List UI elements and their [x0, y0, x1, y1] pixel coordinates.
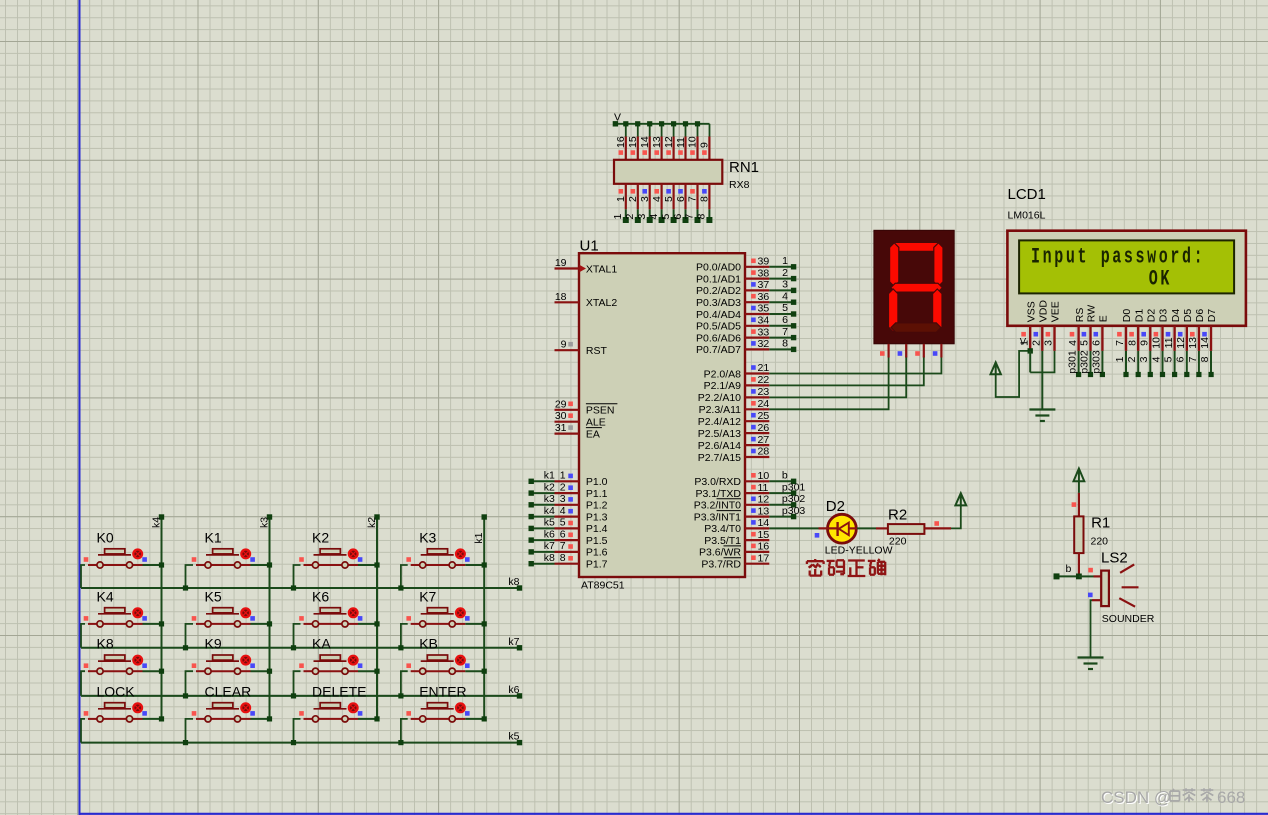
svg-text:SOUNDER: SOUNDER	[1102, 613, 1155, 625]
7seg segment a (top, lit)	[891, 242, 943, 251]
R1 bottom indicator	[1088, 568, 1093, 573]
svg-text:P3.0/RXD: P3.0/RXD	[694, 476, 741, 488]
U1 pin 31 EA	[555, 422, 580, 434]
svg-text:11: 11	[675, 137, 687, 148]
svg-text:2: 2	[627, 196, 639, 202]
wire power to R1	[1078, 481, 1080, 493]
svg-text:1: 1	[615, 196, 627, 202]
wire junction to sounder	[1079, 575, 1094, 577]
svg-text:220: 220	[1091, 536, 1109, 548]
svg-text:P0.0/AD0: P0.0/AD0	[696, 262, 741, 274]
7seg segment e (bottom-left, lit)	[889, 289, 898, 332]
7seg segment f (top-left, lit)	[890, 243, 899, 287]
push button K8	[81, 655, 164, 696]
svg-text:5: 5	[660, 214, 672, 220]
svg-text:668: 668	[1217, 788, 1245, 807]
LCD pin 13 D6	[1187, 309, 1206, 351]
7seg segment c (bottom-right, lit)	[933, 289, 942, 332]
svg-text:P1.7: P1.7	[586, 559, 608, 571]
svg-text:28: 28	[758, 446, 770, 458]
svg-text:2: 2	[560, 481, 566, 493]
push button ENTER	[398, 703, 487, 746]
svg-text:EA: EA	[586, 428, 600, 440]
svg-text:P2.7/A15: P2.7/A15	[698, 452, 741, 464]
text password-correct (Chinese)	[807, 559, 885, 576]
svg-text:XTAL1: XTAL1	[586, 263, 617, 275]
net 5 terminal under LCD D4	[1163, 351, 1178, 377]
U1 pin 16 P3.6/WR	[699, 541, 769, 559]
wire P2.0 to 7-segment pin	[769, 357, 941, 374]
7seg segment g (middle, lit)	[891, 283, 943, 292]
svg-text:E: E	[1098, 315, 1110, 322]
U1 pin 22 P2.1/A9	[704, 374, 770, 392]
svg-text:22: 22	[758, 374, 770, 386]
LCD pin 2 VDD	[1031, 300, 1050, 351]
svg-text:D2: D2	[826, 498, 845, 515]
svg-text:PSEN: PSEN	[586, 405, 615, 417]
svg-text:D7: D7	[1206, 309, 1218, 323]
svg-text:12: 12	[1175, 337, 1187, 349]
svg-text:P3.3/INT1: P3.3/INT1	[694, 511, 741, 523]
net p301 terminal under LCD	[1067, 350, 1082, 377]
sounder LS2 bottom pin wire to ground	[1091, 600, 1102, 657]
R2 logic indicator	[934, 521, 939, 526]
push button DELETE	[291, 703, 380, 746]
svg-text:p301: p301	[1067, 350, 1079, 374]
svg-text:12: 12	[758, 494, 770, 506]
7-segment pin indicators	[880, 351, 937, 356]
svg-text:RST: RST	[586, 345, 608, 357]
svg-text:RW: RW	[1086, 305, 1098, 322]
svg-text:26: 26	[758, 422, 770, 434]
svg-text:6: 6	[675, 196, 687, 202]
svg-text:P3.1/TXD: P3.1/TXD	[695, 488, 741, 500]
U1 pin 33 P0.6/AD6 with net 7 terminal	[696, 326, 796, 345]
LCD pin 10 D3	[1151, 309, 1170, 351]
power arrow (R2)	[955, 493, 966, 505]
svg-text:14: 14	[758, 517, 770, 529]
svg-text:14: 14	[639, 136, 651, 148]
LCD pin 12 D5	[1175, 309, 1194, 351]
wire VEE down-left	[1030, 351, 1054, 373]
svg-text:V: V	[1020, 337, 1027, 348]
svg-text:R2: R2	[888, 506, 907, 523]
svg-text:K4: K4	[97, 588, 114, 604]
svg-text:k5: k5	[508, 731, 519, 743]
U1 pin name ALE	[586, 417, 606, 429]
net 8 terminal under LCD D7	[1199, 351, 1214, 377]
svg-text:P0.3/AD3: P0.3/AD3	[696, 297, 741, 309]
svg-text:1: 1	[612, 214, 624, 220]
svg-text:p302: p302	[1079, 350, 1091, 374]
LCD pin 8 D1	[1126, 309, 1145, 351]
svg-text:P0.2/AD2: P0.2/AD2	[696, 285, 741, 297]
net 2 terminal under LCD D1	[1126, 351, 1141, 377]
svg-text:12: 12	[663, 136, 675, 148]
row wire k6	[81, 684, 522, 699]
svg-text:4: 4	[651, 196, 663, 202]
svg-text:k1: k1	[473, 532, 485, 543]
svg-text:16: 16	[615, 136, 627, 148]
7seg segment b (top-right, lit)	[934, 243, 943, 287]
net p303 wire and terminal	[769, 505, 805, 520]
svg-text:DELETE: DELETE	[312, 683, 366, 699]
CSDN watermark	[1101, 788, 1245, 808]
ground symbol (LS2)	[1078, 658, 1104, 670]
svg-text:CLEAR: CLEAR	[205, 683, 252, 699]
push button K7	[398, 608, 487, 651]
push button K5	[183, 608, 272, 651]
svg-text:4: 4	[560, 505, 566, 517]
U1 pin 21 P2.0/A8	[704, 362, 770, 380]
node b wire and terminal	[1054, 563, 1079, 579]
svg-text:K7: K7	[419, 588, 436, 604]
net p301 wire and terminal	[769, 481, 805, 496]
U1 pin 15 P3.5/T1	[704, 529, 769, 547]
svg-text:D3: D3	[1158, 309, 1170, 323]
svg-text:P3.2/INT0: P3.2/INT0	[694, 500, 741, 512]
svg-text:5: 5	[1079, 340, 1091, 346]
svg-text:5: 5	[560, 517, 566, 529]
svg-text:K5: K5	[205, 588, 222, 604]
svg-text:4: 4	[648, 214, 660, 220]
U1 pin name RST	[586, 345, 608, 357]
power arrow (LCD)	[991, 362, 1001, 374]
U1 pin 8 P1.7 with net k8 wire and terminal	[529, 552, 608, 571]
svg-text:LED-YELLOW: LED-YELLOW	[825, 545, 893, 557]
svg-text:7: 7	[560, 540, 566, 552]
U1 pin 7 P1.6 with net k7 wire and terminal	[529, 540, 608, 559]
resistor network RN1 top wire (net V)	[615, 124, 709, 138]
U1 pin 4 P1.3 with net k4 wire and terminal	[529, 505, 608, 524]
push button KA	[291, 655, 380, 699]
U1 pin 26 P2.5/A13	[698, 422, 770, 440]
svg-text:38: 38	[758, 267, 770, 279]
svg-text:P3.6/WR: P3.6/WR	[699, 547, 741, 559]
svg-text:2: 2	[1031, 340, 1043, 346]
svg-text:D0: D0	[1121, 309, 1133, 323]
wire R2 to power arrow	[951, 505, 961, 528]
svg-text:5: 5	[782, 302, 788, 314]
svg-text:D6: D6	[1194, 309, 1206, 323]
column wire k1	[482, 514, 487, 719]
svg-text:6: 6	[782, 314, 788, 326]
U1 pin 10 P3.0/RXD	[694, 470, 769, 488]
svg-text:8: 8	[699, 196, 711, 202]
push button K3	[398, 549, 487, 591]
LCD pin 11 D4	[1163, 309, 1182, 351]
svg-text:P3.7/RD: P3.7/RD	[701, 559, 741, 571]
svg-text:7: 7	[687, 196, 699, 202]
svg-text:b: b	[1066, 563, 1072, 575]
svg-text:25: 25	[758, 410, 770, 422]
svg-text:10: 10	[687, 136, 699, 148]
svg-text:14: 14	[1199, 337, 1211, 349]
U1 pin 23 P2.2/A10	[698, 386, 770, 404]
U1 pin name XTAL1	[586, 263, 617, 275]
U1 pin 11 P3.1/TXD	[695, 482, 769, 500]
svg-text:3: 3	[639, 196, 651, 202]
resistor R1	[1074, 493, 1083, 577]
svg-text:9: 9	[699, 142, 711, 148]
svg-text:37: 37	[758, 279, 770, 291]
U1 pin 19 XTAL1	[555, 257, 580, 269]
power arrow (R1)	[1074, 469, 1085, 482]
push button K6	[291, 608, 380, 651]
row wire k7	[81, 636, 522, 651]
LCD pin 3 VEE	[1043, 301, 1062, 351]
LCD pin 5 RW	[1079, 305, 1098, 351]
svg-text:24: 24	[758, 398, 770, 410]
svg-text:P0.4/AD4: P0.4/AD4	[696, 309, 741, 321]
svg-text:P2.6/A14: P2.6/A14	[698, 440, 741, 452]
LCD pin 1 VSS	[1018, 301, 1037, 351]
net 1 terminal under LCD D0	[1114, 351, 1129, 377]
svg-text:7: 7	[1114, 340, 1126, 346]
7-segment display body	[874, 230, 954, 343]
U1 pin 18 XTAL2	[555, 291, 580, 303]
LCD pin 9 D2	[1139, 309, 1158, 351]
U1 pin 25 P2.4/A12	[698, 410, 770, 428]
svg-text:K0: K0	[97, 530, 114, 546]
U1 pin name XTAL2	[586, 297, 617, 309]
push button K2	[291, 549, 380, 591]
sounder LS2 body	[1101, 571, 1109, 607]
column wire k3	[267, 514, 272, 719]
net b wire and terminal	[769, 470, 796, 485]
svg-text:9: 9	[561, 339, 567, 351]
svg-text:5: 5	[663, 196, 675, 202]
svg-text:CSDN @: CSDN @	[1101, 788, 1171, 807]
svg-text:LCD1: LCD1	[1008, 186, 1046, 203]
svg-text:1: 1	[560, 470, 566, 482]
net 4 terminal under LCD D3	[1150, 351, 1165, 377]
svg-text:k1: k1	[544, 470, 555, 482]
U1 pin 13 P3.3/INT1	[694, 505, 770, 523]
svg-text:33: 33	[758, 326, 770, 338]
push button KB	[398, 655, 487, 699]
svg-text:U1: U1	[580, 238, 599, 255]
RN1 top pins 16..9	[615, 136, 711, 159]
sounder sound waves	[1119, 564, 1138, 606]
U1 pin 14 P3.4/T0	[704, 517, 769, 535]
svg-text:ENTER: ENTER	[419, 683, 466, 699]
svg-text:k8: k8	[544, 552, 555, 564]
svg-text:8: 8	[560, 552, 566, 564]
svg-text:P1.6: P1.6	[586, 547, 608, 559]
R1 top indicator	[1072, 502, 1077, 507]
push button K0	[81, 549, 164, 588]
svg-text:19: 19	[555, 257, 567, 269]
svg-text:P2.5/A13: P2.5/A13	[698, 428, 741, 440]
svg-text:5: 5	[1163, 356, 1175, 362]
svg-text:3: 3	[782, 279, 788, 291]
svg-text:7: 7	[782, 326, 788, 338]
LCD pin 7 D0	[1114, 309, 1133, 351]
svg-text:8: 8	[1199, 356, 1211, 362]
svg-text:4: 4	[782, 290, 788, 302]
LCD pin 14 D7	[1199, 309, 1218, 351]
svg-text:18: 18	[555, 291, 567, 303]
U1 pin name PSEN	[586, 404, 618, 417]
svg-text:AT89C51: AT89C51	[581, 580, 625, 592]
svg-text:Input password:: Input password:	[1031, 244, 1205, 270]
svg-text:k2: k2	[544, 481, 555, 493]
svg-text:3: 3	[560, 493, 566, 505]
net p302 terminal under LCD	[1079, 350, 1094, 377]
svg-text:K3: K3	[419, 530, 436, 546]
ground symbol (LCD)	[1029, 410, 1055, 422]
svg-text:2: 2	[1126, 356, 1138, 362]
svg-text:k3: k3	[258, 517, 270, 528]
svg-text:36: 36	[758, 291, 770, 303]
U1 pin 5 P1.4 with net k5 wire and terminal	[529, 517, 608, 536]
svg-text:P1.1: P1.1	[586, 488, 608, 500]
svg-text:4: 4	[1150, 356, 1162, 362]
svg-text:k7: k7	[544, 540, 555, 552]
svg-text:K9: K9	[205, 636, 222, 652]
svg-text:P2.3/A11: P2.3/A11	[699, 404, 742, 416]
U1 pin name EA	[586, 428, 602, 441]
push button K4	[81, 608, 164, 648]
svg-text:10: 10	[758, 470, 770, 482]
svg-text:16: 16	[758, 541, 770, 553]
row wire k5	[81, 731, 522, 746]
svg-text:P3.4/T0: P3.4/T0	[704, 523, 741, 535]
resistor R2	[876, 524, 951, 534]
U1 pin 3 P1.2 with net k3 wire and terminal	[529, 493, 608, 512]
U1 pin 1 P1.0 with net k1 wire and terminal	[529, 470, 608, 489]
wire VSS to power arrow	[996, 348, 1033, 397]
svg-text:VDD: VDD	[1038, 300, 1050, 323]
svg-text:K8: K8	[97, 636, 114, 652]
svg-text:P2.0/A8: P2.0/A8	[704, 368, 742, 380]
svg-text:P0.7/AD7: P0.7/AD7	[696, 344, 741, 356]
svg-text:23: 23	[758, 386, 770, 398]
LCD LM016L body	[1007, 231, 1246, 326]
svg-text:K2: K2	[312, 530, 329, 546]
svg-text:P1.0: P1.0	[586, 476, 608, 488]
U1 pin 28 P2.7/A15	[698, 446, 770, 464]
push button K9	[183, 655, 272, 699]
svg-text:KA: KA	[312, 636, 331, 652]
svg-text:P0.6/AD6: P0.6/AD6	[696, 332, 741, 344]
svg-text:17: 17	[758, 552, 770, 564]
wire junctions on V rail	[613, 121, 700, 126]
svg-text:D1: D1	[1133, 309, 1145, 323]
wire P3.4 to LED D2	[769, 527, 818, 529]
svg-text:8: 8	[696, 214, 708, 220]
U1 pin 9 RST	[555, 339, 580, 351]
svg-text:11: 11	[758, 482, 769, 494]
svg-text:6: 6	[1091, 340, 1103, 346]
svg-text:RX8: RX8	[729, 179, 750, 191]
svg-text:13: 13	[1187, 337, 1199, 349]
push button K1	[183, 549, 272, 591]
junction R1/sounder	[1076, 574, 1082, 580]
svg-text:10: 10	[1151, 337, 1163, 349]
svg-text:21: 21	[758, 362, 770, 374]
svg-text:VEE: VEE	[1050, 301, 1062, 322]
push button CLEAR	[183, 703, 272, 746]
svg-text:8: 8	[782, 338, 788, 350]
svg-text:3: 3	[1138, 356, 1150, 362]
RN1 bottom pins 1..8 with terminals	[612, 184, 712, 223]
U1 pin 24 P2.3/A11	[699, 398, 770, 416]
wire P2.2 to 7-segment pin	[769, 357, 906, 398]
U1 pin 37 P0.2/AD2 with net 3 terminal	[696, 279, 796, 298]
svg-text:35: 35	[758, 303, 770, 315]
svg-text:1: 1	[1114, 356, 1126, 362]
svg-text:39: 39	[758, 256, 770, 268]
svg-text:p302: p302	[782, 493, 806, 505]
svg-text:p303: p303	[782, 505, 806, 517]
svg-text:6: 6	[672, 214, 684, 220]
svg-text:220: 220	[889, 536, 907, 548]
net 7 terminal under LCD D6	[1187, 351, 1202, 377]
svg-text:k6: k6	[508, 684, 519, 696]
U1 pin 34 P0.5/AD5 with net 6 terminal	[696, 314, 796, 333]
svg-text:P3.5/T1: P3.5/T1	[704, 535, 741, 547]
svg-text:9: 9	[1139, 340, 1151, 346]
svg-text:P2.1/A9: P2.1/A9	[704, 380, 742, 392]
LED D2 logic indicator	[815, 533, 820, 538]
LCD screen	[1019, 240, 1234, 293]
svg-text:ALE: ALE	[586, 417, 606, 429]
row wire k8	[81, 576, 522, 591]
sounder LS2 top pin	[1094, 575, 1102, 577]
svg-text:30: 30	[555, 410, 567, 422]
svg-text:p303: p303	[1091, 350, 1103, 374]
svg-text:4: 4	[1067, 340, 1079, 346]
svg-text:D2: D2	[1146, 309, 1158, 323]
svg-text:k7: k7	[508, 636, 519, 648]
U1 pin 29 PSEN	[555, 398, 580, 410]
net p302 wire and terminal	[769, 493, 805, 508]
U1 pin 30 ALE	[555, 410, 580, 422]
svg-text:7: 7	[684, 214, 696, 220]
svg-text:P1.3: P1.3	[586, 511, 608, 523]
LED D2 (yellow)	[819, 514, 877, 543]
svg-text:6: 6	[560, 528, 566, 540]
svg-text:2: 2	[782, 267, 788, 279]
svg-text:R1: R1	[1091, 515, 1110, 532]
svg-text:1: 1	[782, 255, 788, 267]
svg-text:31: 31	[555, 422, 567, 434]
sounder bottom pin indicator	[1088, 593, 1093, 598]
push button LOCK	[81, 703, 164, 743]
svg-text:P1.5: P1.5	[586, 535, 608, 547]
resistor network RN1 body	[614, 160, 722, 184]
U1 pin 36 P0.3/AD3 with net 4 terminal	[696, 290, 796, 309]
svg-text:P0.5/AD5: P0.5/AD5	[696, 321, 741, 333]
svg-text:P0.1/AD1: P0.1/AD1	[696, 273, 741, 285]
svg-text:VSS: VSS	[1025, 301, 1037, 322]
svg-text:13: 13	[651, 136, 663, 148]
U1 pin 27 P2.6/A14	[698, 434, 770, 452]
svg-text:k5: k5	[544, 517, 555, 529]
XTAL1 clock input arrow	[580, 265, 587, 272]
microcontroller U1 body	[579, 253, 745, 577]
svg-text:13: 13	[758, 505, 770, 517]
svg-text:K6: K6	[312, 588, 329, 604]
svg-text:LS2: LS2	[1101, 550, 1128, 567]
svg-text:2: 2	[624, 214, 636, 220]
U1 pin 2 P1.1 with net k2 wire and terminal	[529, 481, 608, 500]
U1 pin 39 P0.0/AD0 with net 1 terminal	[696, 255, 796, 274]
svg-text:8: 8	[1126, 340, 1138, 346]
U1 pin 6 P1.5 with net k6 wire and terminal	[529, 528, 608, 547]
